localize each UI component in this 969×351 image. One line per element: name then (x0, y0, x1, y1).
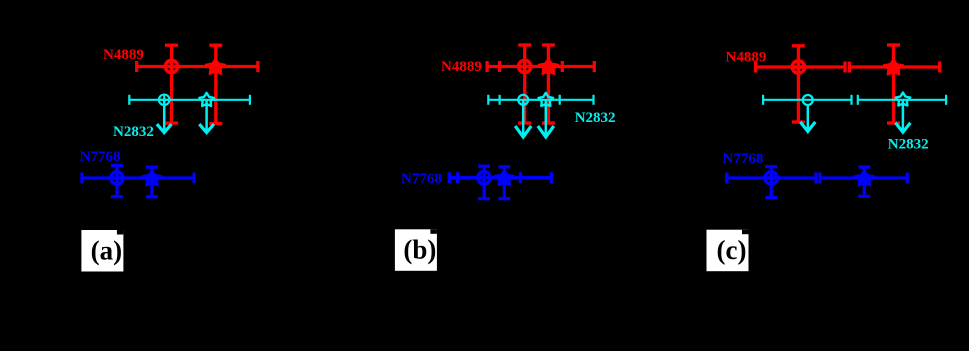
panel a: N4889 star vertical error bar (209, 45, 222, 123)
panel a: N4889 label (103, 47, 144, 63)
panel c: N7768 star marker (854, 170, 874, 186)
panel b: N7768 star vertical error bar (498, 167, 510, 199)
svg-text:N2832: N2832 (888, 137, 929, 153)
svg-text:N7768: N7768 (723, 151, 764, 167)
svg-text:(b): (b) (403, 235, 436, 265)
panel a: N2832 star down arrow (199, 100, 214, 133)
panel b: N4889 star marker (539, 58, 559, 74)
panel a: N4889 circled-plus marker (165, 60, 177, 72)
svg-text:N2832: N2832 (575, 110, 616, 126)
panel a: N2832 horizontal error bar (129, 95, 250, 105)
panel c: N4889 star vertical error bar (887, 45, 900, 123)
svg-text:N4889: N4889 (103, 47, 144, 63)
panel c: N7768 circle horizontal error bar (727, 173, 816, 184)
panel a: N2832 circled-plus marker (159, 95, 170, 106)
panel c: N2832 label (888, 137, 929, 153)
panel a label box (a) (81, 230, 123, 272)
panel b: N2832 horizontal error bars (488, 95, 593, 105)
panel a: N2832 star marker (199, 93, 214, 106)
svg-text:N4889: N4889 (441, 59, 482, 75)
svg-text:(c): (c) (717, 235, 747, 265)
panel a: N4889 horizontal error bar (137, 61, 258, 72)
panel c label box (c) (707, 230, 749, 272)
panel c: N7768 star vertical error bar (858, 167, 870, 196)
panel c: N2832 circle down arrow (800, 106, 815, 132)
panel b: N7768 label (401, 171, 442, 187)
panel a: N7768 star vertical error bar (146, 167, 158, 197)
panel c: N2832 circle marker (803, 95, 813, 105)
panel a: N2832 label (113, 124, 154, 140)
panel c: N4889 label (726, 50, 767, 66)
panel b: N4889 label (441, 59, 482, 75)
panel b: N2832 circle down arrow (515, 100, 531, 137)
panel c: N7768 circled-plus marker (765, 172, 777, 184)
panel b: N7768 circled-plus marker (478, 172, 490, 184)
panel a: N7768 star marker (142, 170, 162, 186)
panel a: N4889 circle vertical error bar (165, 45, 178, 123)
panel b label box (b) (395, 229, 437, 270)
panel c: N7768 circle vertical error bar (765, 167, 777, 198)
panel a: N7768 circled-plus marker (111, 172, 123, 184)
panel c: N2832 star marker (896, 93, 911, 106)
panel a: N7768 label (80, 149, 121, 165)
svg-text:N7768: N7768 (401, 171, 442, 187)
svg-text:N2832: N2832 (113, 124, 154, 140)
panel a: N2832 circle down arrow (157, 100, 172, 133)
panel c: N4889 circled-plus marker (792, 61, 804, 73)
panel b: N4889 star vertical error bar (542, 45, 555, 123)
panel c: N4889 star marker (884, 59, 904, 75)
panel c: N7768 star horizontal error bar (820, 173, 907, 184)
panel a: N4889 star marker (206, 58, 226, 74)
panel b: N7768 circle vertical error bar (478, 166, 490, 198)
svg-text:N4889: N4889 (726, 50, 767, 66)
panel c: N2832 star down arrow (895, 100, 910, 132)
panel b: N7768 star marker (494, 170, 514, 186)
panel b: N2832 label (575, 110, 616, 126)
panel b: N4889 circled-plus marker (519, 60, 531, 72)
panel c: N7768 label (723, 151, 764, 167)
panel a: N7768 circle vertical error bar (111, 165, 123, 196)
panel b: N2832 star marker (539, 93, 554, 106)
panel b: N4889 horizontal error bars (487, 61, 594, 72)
panel b: N2832 circle marker (518, 95, 528, 105)
panel b: N7768 horizontal error bars (449, 172, 551, 183)
svg-text:N7768: N7768 (80, 149, 121, 165)
panel b: N4889 circle vertical error bar (518, 45, 531, 123)
panel c: N4889 circle horizontal error bar (756, 62, 845, 73)
panel c: N2832 star horizontal error bar (858, 95, 946, 105)
panel c: N4889 circle vertical error bar (792, 46, 805, 122)
panel b: N2832 star down arrow (538, 100, 554, 137)
panel c: N2832 circle horizontal error bar (763, 95, 851, 105)
panel c: N4889 star horizontal error bar (850, 62, 940, 73)
svg-text:(a): (a) (91, 235, 122, 265)
panel a: N7768 horizontal error bar (82, 173, 194, 184)
